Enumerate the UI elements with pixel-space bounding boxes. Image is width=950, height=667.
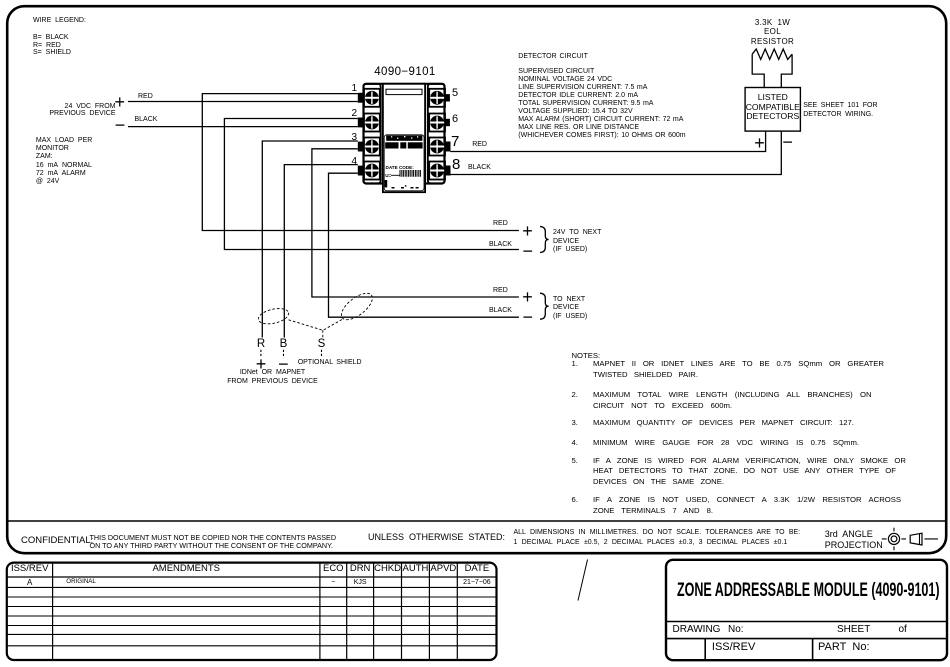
confidential label	[21, 536, 93, 546]
minus sign to next device	[523, 308, 534, 326]
pin label 2	[337, 109, 357, 119]
note 5 number	[572, 457, 578, 465]
wire legend entries	[33, 34, 71, 57]
module designation 4090-9101	[340, 67, 470, 79]
label RED to 24V next device	[493, 220, 508, 227]
confidential statement	[90, 534, 337, 552]
pin label 4	[337, 157, 357, 167]
terminal 2	[358, 114, 380, 132]
label BLACK to next device	[489, 307, 512, 314]
detector block box	[745, 88, 800, 132]
dashed tick below S	[321, 350, 323, 358]
plus sign previous device	[115, 93, 126, 111]
wire terminal 1 to 24V to next device (red)	[202, 94, 519, 231]
svg-text:DATE CODE:: DATE CODE:	[386, 165, 415, 170]
label RED to next device	[493, 287, 508, 294]
amendments table	[7, 563, 497, 660]
brace for to next device	[540, 293, 549, 319]
minus sign IDNet	[278, 355, 289, 373]
label BLACK (previous device)	[135, 116, 158, 123]
wire legend heading	[33, 17, 86, 24]
label 24V TO NEXT DEVICE (IF USED)	[553, 229, 601, 255]
module U1 product sticker	[384, 135, 424, 191]
note 1 number	[572, 360, 578, 368]
pin label 8	[452, 157, 460, 172]
svg-text:U=: U=	[385, 173, 391, 178]
note 3 line 1	[593, 419, 854, 427]
wire terminal 3 to IDNet R	[262, 141, 358, 338]
amendments table header	[7, 564, 53, 574]
minus sign 24V next device	[523, 242, 534, 260]
node label R	[253, 339, 269, 351]
plus sign 24V next device	[522, 222, 533, 240]
twisted pair symbol on next-device lines	[337, 288, 377, 324]
title block of	[899, 625, 907, 635]
pin label 1	[337, 84, 357, 94]
note 4 line 1	[593, 439, 859, 447]
supervised circuit spec block	[518, 68, 685, 140]
terminal 1	[358, 89, 380, 107]
pin label 5	[452, 88, 458, 99]
detector circuit heading	[518, 53, 588, 60]
note 6 number	[572, 496, 578, 504]
title block drawing no	[673, 625, 744, 635]
module U1 N mark	[385, 180, 388, 187]
detector block text	[745, 93, 801, 122]
wire terminal 7 to detector + (red)	[450, 131, 765, 151]
label BLACK to 24V next device	[489, 241, 512, 248]
minus sign detector	[782, 133, 793, 151]
tolerance statement	[514, 528, 801, 549]
node label B	[276, 339, 292, 351]
twisted pair symbol on R/B lines	[257, 306, 290, 327]
terminal 8	[429, 162, 450, 180]
amendments row A	[7, 579, 53, 587]
label RED on terminal 7 wire	[472, 141, 487, 148]
confidential strip separator line	[9, 520, 946, 522]
note 6 line 2	[593, 507, 713, 515]
module U1 barcode lead line	[391, 174, 400, 176]
plus sign to next device	[522, 288, 533, 306]
dashed tick below R	[260, 350, 262, 358]
terminal 6	[429, 114, 450, 132]
module U1 bottom tick marks	[392, 185, 419, 188]
terminal 4	[358, 162, 380, 180]
wire terminal 4 to IDNet B	[284, 165, 358, 338]
terminal 5	[429, 89, 450, 107]
wire terminal 3 to next device (red)	[312, 149, 519, 297]
label IDNet OR MAPNET FROM PREVIOUS DEVICE	[190, 369, 355, 387]
wire black from previous device to terminal 2	[128, 126, 358, 128]
title block drawing title	[677, 581, 940, 600]
label 24 VDC FROM PREVIOUS DEVICE	[0, 104, 116, 117]
pin label 7	[451, 134, 459, 149]
label TO NEXT DEVICE (IF USED)	[553, 296, 587, 322]
title block part no	[818, 642, 870, 653]
label OPTIONAL SHIELD	[298, 359, 362, 366]
shield drain dashed wires to junction	[289, 320, 343, 338]
3rd angle projection label	[825, 529, 883, 550]
module U1 right terminal strip	[428, 84, 445, 184]
module U1 left terminal strip	[364, 84, 381, 184]
note 4 number	[572, 439, 578, 447]
note 2 number	[572, 391, 578, 399]
module U1 center panel	[383, 84, 425, 192]
terminal 7	[429, 138, 450, 156]
plus sign detector	[754, 134, 765, 152]
node label S	[314, 339, 330, 351]
plus sign IDNet	[256, 355, 267, 373]
resistor R1 EOL 3.3K 1W zigzag	[752, 49, 792, 59]
module U1 top label bar	[386, 89, 422, 94]
pin label 6	[452, 114, 458, 125]
dashed tick below B	[283, 350, 285, 358]
module U1 sticker text row 1	[386, 135, 422, 140]
module U1 barcode	[400, 170, 420, 177]
note 3 number	[572, 419, 578, 427]
module U1 sticker text row 2	[385, 142, 422, 148]
label RED (previous device)	[138, 93, 153, 100]
title block iss/rev	[712, 642, 755, 653]
note 5 line 1	[593, 457, 906, 465]
note 1 line 2	[593, 371, 698, 379]
wire terminal 8 to detector - (black)	[450, 131, 781, 174]
terminal 3	[358, 138, 380, 156]
value label 3.3K 1W EOL RESISTOR	[723, 18, 823, 47]
note 6 line 1	[593, 496, 901, 504]
note 5 line 3	[593, 478, 724, 486]
title block	[666, 560, 947, 660]
brace for 24V to next device	[540, 227, 549, 253]
3rd angle projection symbol circle	[882, 528, 906, 550]
wire terminal 2 to 24V to next device (black)	[224, 119, 519, 250]
section slash between tables	[578, 560, 588, 601]
wire terminal 4 to next device (black)	[329, 173, 519, 317]
note 2 line 2	[593, 402, 732, 410]
note 2 line 1	[593, 391, 872, 399]
notes heading	[572, 352, 601, 360]
resistor R1 EOL leads	[752, 54, 792, 87]
module U1 4090-9101 body	[364, 84, 445, 184]
title block sheet	[837, 625, 870, 635]
note 5 line 2	[593, 467, 896, 475]
pin label 3	[337, 133, 357, 143]
note see sheet 101	[803, 102, 877, 119]
unless otherwise stated	[368, 533, 505, 542]
label BLACK on terminal 8 wire	[468, 164, 491, 171]
note 1 line 1	[593, 360, 884, 368]
wire +24V red from previous device to terminal 1	[128, 101, 358, 103]
3rd angle projection symbol cone	[910, 533, 938, 545]
label MAX LOAD PER MONITOR ZAM	[36, 137, 92, 187]
minus sign previous device	[115, 116, 126, 134]
